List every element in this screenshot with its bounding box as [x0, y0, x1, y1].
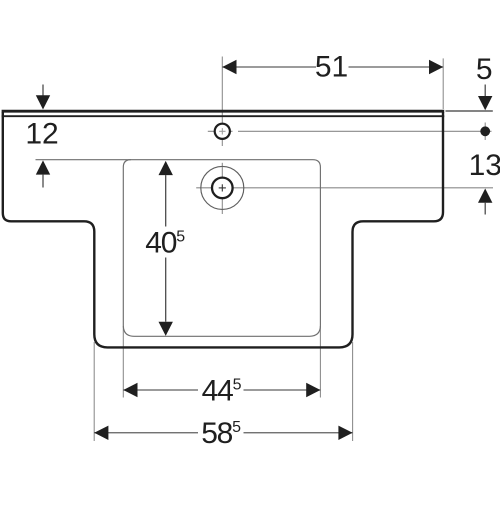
dimension 5 down arrow head — [478, 96, 492, 110]
dimension 12 down arrow head — [36, 95, 50, 109]
dimension 13 up arrow stem — [484, 203, 486, 215]
dimension 44.5 right arrow — [306, 383, 320, 397]
dimension 58.5 left arrow — [94, 426, 108, 440]
dimension 51 line — [222, 66, 443, 68]
centerline vertical through tap hole (lower segment) — [221, 163, 223, 214]
dimension 12 down arrow stem — [42, 85, 44, 97]
fixing hole center cross — [219, 128, 225, 134]
outer body outline — [3, 112, 443, 347]
tap hole outer circle — [201, 166, 244, 209]
centerline horizontal through tap hole to right edge — [196, 187, 493, 189]
dimension 40.5 upper stem — [165, 175, 167, 226]
slab top edge (thick line) — [2, 110, 445, 113]
extension line 44.5 right — [319, 326, 321, 398]
extension line 51 right — [442, 58, 444, 109]
dimension 44.5 line — [123, 389, 320, 391]
extension line 12/40.5 (bowl top level) — [36, 159, 132, 161]
slab second edge (thin line) — [2, 115, 445, 117]
dimension 58.5 right arrow — [338, 426, 352, 440]
extension line 58.5 left — [93, 342, 95, 441]
svg-text:51: 51 — [315, 50, 348, 83]
bowl outline (inner basin) — [123, 160, 320, 337]
centerline horizontal through fixing hole to right dot — [208, 130, 233, 132]
dimension 58.5 line — [94, 432, 352, 434]
reference dot — [480, 126, 490, 136]
dimension 5 down arrow stem — [484, 85, 486, 97]
extension line 44.5 left — [122, 326, 124, 398]
fixing hole (small circle) — [215, 124, 230, 139]
dimension 44.5 left arrow — [123, 383, 137, 397]
svg-text:12: 12 — [25, 117, 58, 150]
centerline vertical through fixing hole (upper segment) — [221, 57, 223, 147]
dimension 12 up arrow stem — [42, 175, 44, 188]
dimension 40.5 bottom arrow head — [159, 322, 173, 336]
dimension 12 up arrow — [36, 160, 50, 174]
dimension 51 right arrow — [429, 60, 443, 74]
extension line 58.5 right — [352, 342, 354, 441]
slab top reference line (right) — [446, 110, 493, 112]
dimension 13 up arrow — [478, 189, 492, 203]
svg-text:13: 13 — [469, 149, 500, 182]
tap hole inner circle — [212, 178, 233, 199]
dimension 40.5 top arrow — [159, 161, 173, 175]
tap hole center cross — [219, 184, 226, 191]
dot vertical tick — [484, 123, 486, 141]
dimension 40.5 lower stem — [165, 258, 167, 322]
svg-text:5: 5 — [476, 53, 493, 86]
dimension 51 left arrow — [222, 60, 236, 74]
